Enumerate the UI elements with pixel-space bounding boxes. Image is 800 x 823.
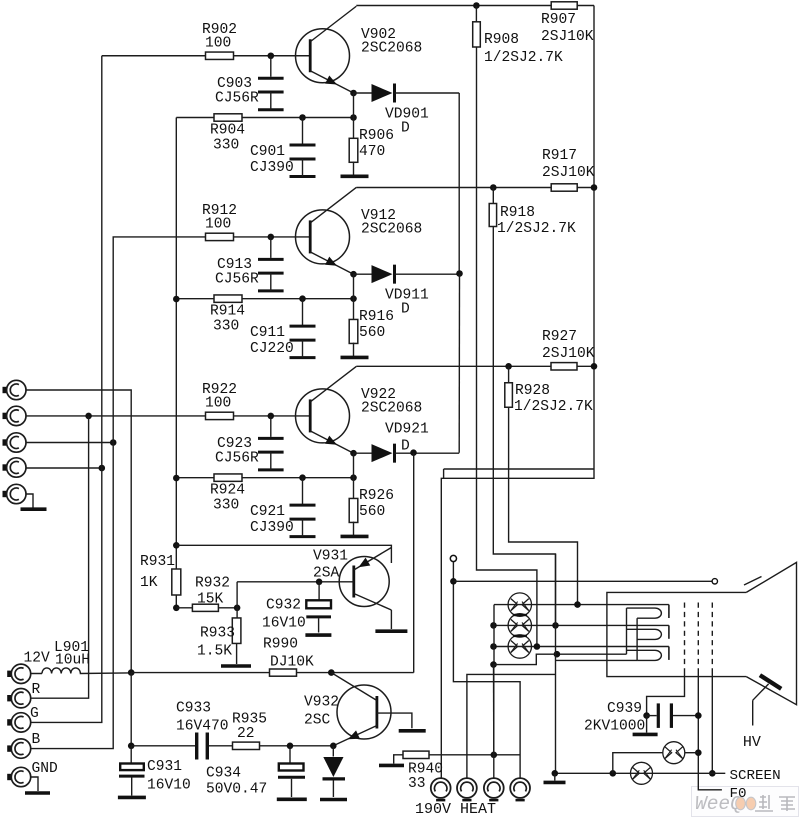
- node output stage3: [410, 449, 417, 456]
- capacitor C921: [250, 478, 316, 537]
- wire J4: [26, 465, 105, 472]
- connector J4: [3, 458, 27, 477]
- ground C934: [277, 797, 307, 801]
- node rail3 R928: [505, 363, 512, 370]
- diode VD921: [372, 421, 460, 462]
- connector J2: [3, 406, 27, 425]
- spark gap E4: [631, 762, 653, 784]
- svg-text:V931: V931: [313, 549, 348, 565]
- node emitter V922: [350, 450, 371, 457]
- watermark: [692, 787, 799, 817]
- capacitor C913: [215, 237, 284, 291]
- capacitor C923: [215, 416, 284, 470]
- svg-text:2SC2068: 2SC2068: [361, 40, 422, 56]
- wire R931 bottom: [173, 595, 180, 611]
- wire V931 base: [237, 579, 354, 586]
- svg-text:CJ220: CJ220: [250, 341, 294, 357]
- ground V931: [375, 629, 407, 633]
- capacitor C933: [176, 701, 229, 760]
- resistor R922: [202, 382, 237, 420]
- connector J5: [3, 484, 27, 503]
- spark gap E1: [508, 593, 531, 616]
- resistor R927: [542, 329, 595, 370]
- svg-text:C901: C901: [250, 144, 285, 160]
- wire 190V feed: [441, 469, 594, 778]
- svg-text:C933: C933: [176, 701, 211, 717]
- ground VD932: [320, 798, 347, 802]
- wire screen gnd: [554, 773, 556, 780]
- ground C939: [633, 733, 658, 737]
- wire gun row1: [494, 601, 669, 608]
- svg-text:R926: R926: [359, 488, 394, 504]
- diode VD911: [372, 265, 460, 318]
- svg-text:HV: HV: [743, 734, 761, 751]
- svg-text:2SJ10K: 2SJ10K: [541, 29, 594, 45]
- wire R940 row: [429, 752, 520, 759]
- transistor V902: [296, 6, 423, 93]
- node emitter V902: [350, 90, 371, 97]
- svg-text:R932: R932: [195, 576, 230, 592]
- wire base row V922: [26, 413, 310, 420]
- heater pin P1: [431, 778, 451, 800]
- svg-text:R904: R904: [210, 123, 245, 139]
- svg-text:R927: R927: [542, 329, 577, 345]
- wire screen column: [555, 554, 557, 773]
- wire pin2 up: [467, 674, 556, 778]
- resistor R916: [349, 274, 394, 356]
- svg-text:2SA: 2SA: [313, 566, 340, 582]
- wire output stage1 down: [458, 93, 460, 274]
- capacitor C911: [250, 299, 316, 358]
- wire G column: [31, 56, 102, 723]
- spark gap E5: [663, 742, 699, 764]
- svg-text:R928: R928: [515, 383, 550, 399]
- svg-text:B: B: [32, 732, 41, 748]
- diode VD932: [323, 746, 346, 797]
- node rail top: [473, 2, 480, 9]
- crt cathodes: [668, 605, 670, 660]
- ground under R906: [341, 175, 369, 179]
- wire G1 row: [453, 580, 712, 582]
- svg-text:R906: R906: [359, 128, 394, 144]
- svg-text:DJ10K: DJ10K: [270, 655, 314, 671]
- capacitor C932: [262, 582, 331, 633]
- wire heater top feed: [494, 651, 627, 665]
- svg-text:V932: V932: [304, 695, 339, 711]
- svg-text:C934: C934: [206, 766, 241, 782]
- svg-text:33: 33: [408, 776, 426, 792]
- label F0: [730, 786, 747, 802]
- ground R940: [379, 764, 404, 768]
- resistor R917: [542, 148, 595, 191]
- connector G: [7, 706, 39, 732]
- crt funnel: [746, 562, 796, 704]
- svg-text:330: 330: [213, 498, 239, 514]
- svg-text:CJ56R: CJ56R: [215, 90, 259, 106]
- svg-text:1.5K: 1.5K: [197, 644, 232, 660]
- svg-text:R907: R907: [541, 12, 576, 28]
- svg-text:D: D: [401, 301, 410, 317]
- wire output to V932: [413, 453, 415, 673]
- ground R933: [221, 664, 251, 668]
- inductor L901: [31, 640, 131, 674]
- node emitter V912: [350, 271, 371, 278]
- svg-text:C939: C939: [607, 701, 642, 717]
- node 12V: [128, 669, 135, 676]
- svg-text:R918: R918: [500, 205, 535, 221]
- svg-text:2SC2068: 2SC2068: [361, 221, 422, 237]
- node output join VD911: [456, 270, 463, 277]
- svg-text:2KV1000: 2KV1000: [584, 719, 645, 735]
- svg-text:GND: GND: [32, 761, 59, 777]
- wire base row V912: [113, 234, 311, 241]
- svg-text:16V10: 16V10: [147, 778, 191, 794]
- wire R918 to gun row2: [493, 227, 555, 626]
- svg-text:1/2SJ2.7K: 1/2SJ2.7K: [484, 50, 563, 66]
- svg-text:560: 560: [359, 325, 385, 341]
- svg-text:C932: C932: [266, 598, 301, 614]
- wire C939 gnd lead: [646, 716, 648, 733]
- wire gun row3: [490, 643, 669, 650]
- capacitor C934: [206, 746, 305, 798]
- svg-text:R908: R908: [484, 32, 519, 48]
- wire 12V row bottom: [131, 743, 336, 750]
- wire J5 gnd: [26, 494, 33, 508]
- resistor R990: [263, 637, 314, 677]
- connector B: [7, 732, 40, 758]
- wire J1 down: [26, 390, 131, 673]
- svg-text:CJ56R: CJ56R: [215, 450, 259, 466]
- resistor R918: [489, 188, 576, 238]
- label HV: [743, 734, 761, 751]
- heater pin P2: [457, 778, 477, 800]
- svg-text:2SC2068: 2SC2068: [361, 400, 422, 416]
- crt gun box: [607, 592, 746, 676]
- wire row R924: [176, 474, 357, 481]
- wire V932 base gnd: [377, 713, 412, 728]
- svg-text:R917: R917: [542, 148, 577, 164]
- capacitor C939: [584, 701, 698, 735]
- svg-text:2SJ10K: 2SJ10K: [542, 346, 595, 362]
- resistor R935: [232, 712, 267, 750]
- wire collector rail V922: [356, 365, 594, 367]
- wire V931 emitter rail: [176, 545, 391, 563]
- crt heaters: [627, 608, 662, 660]
- wire B column: [31, 237, 113, 749]
- resistor R908: [473, 6, 563, 67]
- capacitor C903: [215, 56, 284, 110]
- svg-text:50V0.47: 50V0.47: [206, 782, 267, 798]
- ground under R926: [341, 535, 369, 539]
- wire row R904: [176, 114, 357, 121]
- connector GND: [7, 761, 58, 787]
- terminal anode circle: [712, 579, 717, 584]
- wire anode tick: [744, 577, 762, 586]
- diode VD901: [372, 84, 460, 137]
- wire rail 330s: [173, 118, 180, 569]
- svg-text:1/2SJ2.7K: 1/2SJ2.7K: [497, 221, 576, 237]
- resistor R906: [349, 93, 394, 175]
- svg-text:R: R: [32, 682, 41, 698]
- svg-text:G: G: [30, 706, 39, 722]
- ground GND input: [25, 791, 50, 795]
- spark gap E2: [508, 614, 531, 637]
- svg-text:R914: R914: [210, 304, 245, 320]
- svg-text:R924: R924: [210, 483, 245, 499]
- wire base row V902: [102, 52, 310, 59]
- wire R932 row: [176, 582, 240, 611]
- wire G3 down: [695, 673, 722, 790]
- svg-text:100: 100: [205, 216, 231, 232]
- node rail2 R918: [490, 184, 497, 191]
- transistor V912: [296, 187, 423, 274]
- svg-text:15K: 15K: [197, 592, 224, 608]
- resistor R932: [192, 576, 230, 612]
- resistor R926: [349, 453, 394, 535]
- wire GND stub: [31, 777, 38, 791]
- wire pin4 up: [453, 581, 520, 778]
- ground screen: [544, 781, 566, 785]
- svg-text:1K: 1K: [140, 575, 158, 591]
- wire J2 down: [31, 416, 89, 698]
- connector R: [7, 682, 40, 708]
- resistor R904: [210, 114, 245, 154]
- svg-text:R916: R916: [359, 309, 394, 325]
- wire J3: [26, 439, 116, 446]
- svg-text:10uH: 10uH: [55, 653, 90, 669]
- resistor R924: [210, 474, 245, 514]
- wire G2 to C939: [647, 673, 685, 714]
- svg-text:2SC: 2SC: [304, 713, 331, 729]
- svg-text:R931: R931: [140, 554, 175, 570]
- wire R940 gnd lead: [394, 755, 404, 764]
- wire rail loop: [444, 469, 594, 478]
- wire gun left bus: [490, 605, 497, 755]
- svg-text:R933: R933: [200, 626, 235, 642]
- node J2 branch: [85, 413, 92, 420]
- label SCREEN: [730, 768, 781, 784]
- transistor V931: [313, 548, 391, 611]
- svg-text:F0: F0: [730, 786, 747, 802]
- resistor R940: [403, 751, 443, 792]
- wire collector rail V902: [356, 5, 594, 7]
- wire G4 down: [709, 673, 716, 777]
- wire collector rail V912: [356, 187, 594, 189]
- wire R908 to gun row3: [477, 47, 537, 647]
- connector 12V: [7, 651, 50, 684]
- svg-text:22: 22: [237, 726, 255, 742]
- wire row R914: [176, 295, 357, 302]
- svg-text:C921: C921: [250, 504, 285, 520]
- wire R990 row: [131, 669, 414, 676]
- transistor V932: [304, 673, 391, 746]
- crt anode contact: [760, 675, 781, 689]
- heater pin P4: [510, 778, 530, 800]
- svg-text:CJ56R: CJ56R: [215, 271, 259, 287]
- resistor R933: [197, 608, 241, 664]
- spark gap E3: [508, 635, 531, 658]
- svg-text:CJ390: CJ390: [250, 160, 294, 176]
- svg-text:C911: C911: [250, 325, 285, 341]
- node C939 left: [643, 712, 650, 719]
- svg-text:2SJ10K: 2SJ10K: [542, 165, 595, 181]
- svg-text:12V: 12V: [24, 651, 51, 667]
- wire heater bottom: [556, 659, 638, 661]
- node TP: [450, 578, 457, 585]
- ground under R916: [341, 356, 369, 360]
- svg-text:16V10: 16V10: [262, 616, 306, 632]
- wire R928 to gun row1: [509, 407, 578, 604]
- transistor V922: [296, 366, 423, 453]
- resistor R914: [210, 295, 245, 335]
- svg-text:R990: R990: [263, 637, 298, 653]
- terminal TP: [450, 555, 456, 581]
- ground C932: [305, 633, 331, 637]
- svg-text:1/2SJ2.7K: 1/2SJ2.7K: [514, 399, 593, 415]
- svg-text:D: D: [401, 438, 410, 454]
- crt grids dashed: [685, 603, 713, 673]
- wire V931 collector: [390, 610, 392, 629]
- resistor R902: [202, 22, 237, 60]
- capacitor C901: [250, 118, 316, 177]
- resistor R907: [541, 2, 594, 45]
- gun overlap bars: [513, 615, 527, 636]
- resistor R928: [505, 366, 593, 415]
- wire right rail 190V: [591, 6, 598, 470]
- resistor R931: [140, 554, 181, 595]
- label 190V HEAT: [415, 801, 496, 818]
- ground C931: [118, 796, 146, 800]
- heater pin P3: [484, 778, 504, 800]
- connector J3: [3, 433, 27, 452]
- wire lamp2 link: [613, 753, 663, 774]
- svg-text:330: 330: [213, 138, 239, 154]
- svg-text:CJ390: CJ390: [250, 520, 294, 536]
- svg-text:C931: C931: [147, 759, 182, 775]
- svg-text:16V470: 16V470: [176, 719, 229, 735]
- wire output stage2 down: [458, 274, 460, 453]
- connector J1: [3, 380, 27, 399]
- ground V932 base: [399, 729, 426, 733]
- ground J5: [21, 507, 47, 511]
- svg-text:330: 330: [213, 319, 239, 335]
- svg-text:SCREEN: SCREEN: [730, 768, 781, 784]
- wire 12V down: [128, 673, 135, 750]
- wire screen row: [552, 770, 726, 777]
- svg-text:560: 560: [359, 504, 385, 520]
- svg-text:190V HEAT: 190V HEAT: [415, 801, 496, 818]
- svg-text:100: 100: [205, 395, 231, 411]
- svg-text:470: 470: [359, 144, 385, 160]
- wire gun row2: [490, 622, 669, 629]
- resistor R912: [202, 203, 237, 241]
- wire HV lead: [753, 684, 769, 726]
- capacitor C931: [119, 746, 191, 796]
- wire pin3 up: [493, 665, 495, 778]
- svg-text:100: 100: [205, 35, 231, 51]
- svg-text:D: D: [401, 120, 410, 136]
- svg-text:VD921: VD921: [385, 421, 429, 437]
